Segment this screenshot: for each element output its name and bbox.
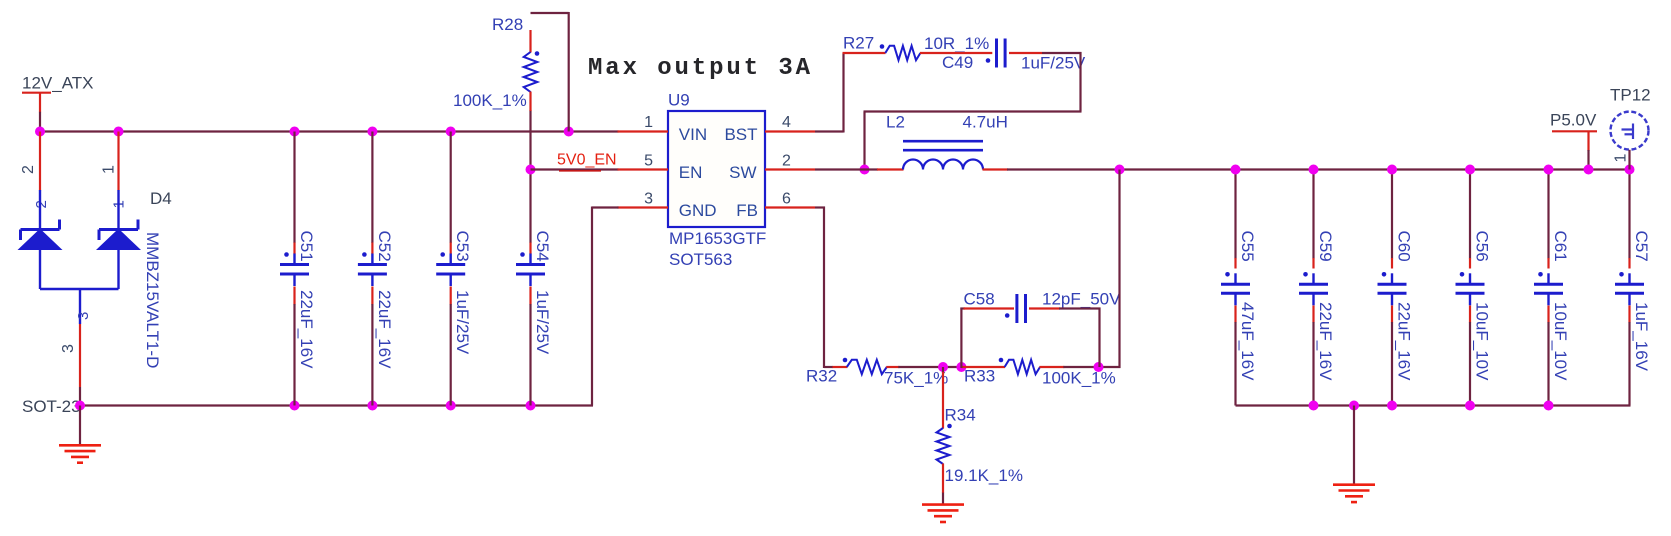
resistor R28	[529, 30, 531, 53]
svg-text:12V_ATX: 12V_ATX	[22, 74, 94, 93]
svg-text:22uF_16V: 22uF_16V	[375, 290, 394, 369]
svg-text:C49: C49	[942, 53, 973, 72]
pin 2 SW	[765, 168, 815, 170]
wire output gnd stem	[1353, 406, 1355, 485]
svg-text:C51: C51	[297, 231, 316, 262]
svg-text:10uF_10V: 10uF_10V	[1551, 302, 1570, 381]
wire C51 top	[293, 132, 295, 244]
svg-text:R27: R27	[843, 34, 874, 53]
wire C56 top	[1469, 170, 1471, 259]
wire C61 top	[1547, 170, 1549, 259]
svg-text:1: 1	[101, 165, 118, 174]
diode D4 zener A (pin 2)	[20, 190, 60, 289]
junction D4 pin1	[114, 127, 124, 137]
wire C55 top	[1234, 170, 1236, 259]
svg-text:10R_1%: 10R_1%	[924, 34, 989, 53]
svg-text:C61: C61	[1551, 231, 1570, 262]
wire R34 top	[942, 367, 944, 373]
junction output gnd stem	[1349, 401, 1359, 411]
capacitor C60	[1378, 273, 1407, 305]
diode D4 pin 2 lead	[39, 132, 41, 191]
svg-text:12pF_50V: 12pF_50V	[1042, 290, 1121, 309]
svg-text:VIN: VIN	[679, 125, 707, 144]
junction C51 bottom	[290, 401, 300, 411]
svg-text:47uF_16V: 47uF_16V	[1238, 302, 1257, 381]
svg-text:C56: C56	[1473, 231, 1492, 262]
junction P5.0V	[1584, 165, 1594, 175]
resistor R33	[961, 366, 1005, 368]
junction C54 bottom	[526, 401, 536, 411]
junction gnd stem	[75, 401, 85, 411]
capacitor C57	[1615, 273, 1644, 305]
svg-text:3: 3	[644, 191, 653, 208]
wire C57 bottom	[1628, 322, 1630, 406]
svg-text:SOT563: SOT563	[669, 250, 732, 269]
junction C53 bottom	[446, 401, 456, 411]
ground R34	[922, 505, 964, 522]
junction C61 top	[1544, 165, 1554, 175]
junction EN node	[526, 165, 536, 175]
wire C59 bottom	[1312, 322, 1314, 406]
svg-text:100K_1%: 100K_1%	[453, 91, 527, 110]
svg-text:5: 5	[644, 153, 653, 170]
svg-text:1uF/25V: 1uF/25V	[533, 290, 552, 355]
svg-text:C57: C57	[1632, 231, 1651, 262]
svg-text:TP12: TP12	[1610, 86, 1651, 105]
diode D4 zener B (pin 1)	[99, 190, 139, 289]
svg-text:1: 1	[1613, 154, 1630, 163]
D4 pin 3 lead	[79, 324, 81, 387]
junction R28 top loop	[564, 127, 574, 137]
testpoint TP12	[1611, 112, 1649, 150]
pin 5 EN	[618, 168, 669, 170]
wire C59 top	[1312, 170, 1314, 259]
ground left (SOT-23)	[59, 445, 101, 462]
wire gnd bus left	[79, 404, 593, 406]
svg-text:22uF_16V: 22uF_16V	[1316, 302, 1335, 381]
junction C56 top	[1465, 165, 1475, 175]
junction C57/TP12 top	[1625, 165, 1635, 175]
wire C52 top	[371, 132, 373, 244]
svg-text:3: 3	[75, 312, 92, 320]
svg-text:19.1K_1%: 19.1K_1%	[945, 466, 1023, 485]
svg-text:MMBZ15VALT1-D: MMBZ15VALT1-D	[143, 232, 162, 368]
wire GND pin route	[592, 206, 619, 208]
svg-text:U9: U9	[668, 91, 690, 110]
pin 3 GND	[618, 206, 669, 208]
svg-text:C55: C55	[1238, 231, 1257, 262]
svg-text:P5.0V: P5.0V	[1550, 111, 1597, 130]
svg-text:2: 2	[20, 165, 37, 174]
svg-text:GND: GND	[679, 201, 717, 220]
junction C59 bottom	[1309, 401, 1319, 411]
wire C51 bottom	[293, 304, 295, 406]
D4 cathode join	[40, 288, 119, 290]
wire FB route	[815, 206, 825, 208]
wire 5V output bus	[1007, 168, 1631, 170]
wire FB mid	[898, 366, 962, 368]
wire 12V_ATX stub	[39, 112, 41, 132]
wire BST route	[815, 130, 844, 132]
svg-text:22uF_16V: 22uF_16V	[1395, 302, 1414, 381]
junction FB sense	[1115, 165, 1125, 175]
junction C59 top	[1309, 165, 1319, 175]
wire SW	[815, 168, 878, 170]
wire C52 bottom	[371, 304, 373, 406]
capacitor C56	[1456, 273, 1485, 305]
resistor R27	[885, 46, 920, 60]
svg-text:C53: C53	[453, 231, 472, 262]
junction C58 left	[956, 362, 966, 372]
capacitor C49	[997, 39, 1006, 68]
junction C53 top	[446, 127, 456, 137]
wire 12V bus	[39, 130, 619, 132]
svg-text:1uF/25V: 1uF/25V	[453, 290, 472, 355]
TP12 pin 1 lead	[1628, 150, 1630, 170]
capacitor C51	[280, 254, 309, 287]
wire C56 bottom	[1469, 322, 1471, 406]
svg-text:R32: R32	[806, 367, 837, 386]
svg-text:SW: SW	[729, 163, 756, 182]
svg-text:1uF/25V: 1uF/25V	[1021, 54, 1086, 73]
svg-text:D4: D4	[150, 189, 172, 208]
svg-text:2: 2	[33, 200, 50, 208]
junction C52 top	[367, 127, 377, 137]
svg-text:3: 3	[60, 344, 77, 353]
junction C55 top	[1231, 165, 1241, 175]
svg-text:1uF_16V: 1uF_16V	[1632, 302, 1651, 372]
svg-text:6: 6	[782, 191, 791, 208]
wire C58 branch right	[1059, 307, 1101, 309]
wire to gnd bus	[79, 387, 81, 406]
junction C51 top	[290, 127, 300, 137]
wire output gnd bus	[1236, 404, 1631, 406]
svg-text:22uF_16V: 22uF_16V	[297, 290, 316, 369]
junction R34 top	[938, 362, 948, 372]
wire FB sense feed	[1118, 170, 1120, 369]
svg-text:1: 1	[644, 114, 653, 131]
pin 4 BST	[765, 130, 815, 132]
svg-text:R33: R33	[964, 367, 995, 386]
wire C60 top	[1391, 170, 1393, 259]
wire EN	[531, 168, 619, 170]
svg-text:R28: R28	[492, 15, 523, 34]
pin 1 VIN	[618, 130, 669, 132]
svg-text:EN: EN	[679, 163, 703, 182]
svg-text:4: 4	[782, 114, 791, 131]
resistor R32	[833, 366, 848, 368]
svg-text:R34: R34	[945, 406, 976, 425]
wire C61 bottom	[1547, 322, 1549, 406]
junction C61 bottom	[1544, 401, 1554, 411]
svg-text:FB: FB	[736, 201, 758, 220]
capacitor C53	[436, 254, 465, 287]
wire R28 top loop	[531, 12, 569, 14]
capacitor C61	[1534, 273, 1563, 305]
node 12V_ATX bus left	[35, 127, 45, 137]
svg-text:2: 2	[782, 153, 791, 170]
wire gnd stem left	[79, 406, 81, 446]
inductor L2	[903, 160, 983, 170]
svg-text:BST: BST	[724, 125, 757, 144]
wire C57 top	[1628, 170, 1630, 259]
svg-text:4.7uH: 4.7uH	[963, 113, 1008, 132]
junction C56 bottom	[1465, 401, 1475, 411]
capacitor C59	[1299, 273, 1328, 305]
junction C58 right	[1094, 362, 1104, 372]
svg-text:C52: C52	[375, 231, 394, 262]
wire C49 to corner	[1042, 52, 1082, 54]
svg-text:10uF_10V: 10uF_10V	[1473, 302, 1492, 381]
wire C54/R28 column	[529, 110, 531, 243]
junction SW node	[860, 165, 870, 175]
wire FB right	[1063, 366, 1120, 368]
svg-text:100K_1%: 100K_1%	[1042, 369, 1116, 388]
wire bootstrap return	[864, 110, 1082, 112]
svg-text:C54: C54	[533, 231, 552, 262]
wire P5.0V stub	[1587, 150, 1589, 170]
junction C52 bottom	[367, 401, 377, 411]
svg-text:C58: C58	[964, 290, 995, 309]
wire R34 gnd stem	[942, 493, 944, 505]
diode D4 pin 1 lead	[117, 132, 119, 191]
wire C58 branch left	[960, 308, 962, 369]
wire C55 bottom	[1234, 322, 1236, 406]
svg-text:5V0_EN: 5V0_EN	[557, 152, 617, 169]
svg-text:Max output 3A: Max output 3A	[588, 55, 813, 82]
svg-text:SOT-23: SOT-23	[22, 397, 81, 416]
wire C60 bottom	[1391, 322, 1393, 406]
op-amp/regulator U9 MP1653GTF body	[668, 111, 765, 227]
svg-text:C60: C60	[1395, 231, 1414, 262]
pin 6 FB	[765, 206, 815, 208]
capacitor C54	[516, 254, 545, 287]
wire C53 bottom	[450, 304, 452, 406]
svg-text:75K_1%: 75K_1%	[884, 369, 948, 388]
ground output	[1333, 485, 1375, 502]
wire C54 bottom	[529, 304, 531, 406]
capacitor C52	[358, 254, 387, 287]
svg-text:MP1653GTF: MP1653GTF	[669, 229, 766, 248]
svg-text:C59: C59	[1316, 231, 1335, 262]
junction C60 bottom	[1387, 401, 1397, 411]
wire C53 top	[450, 132, 452, 244]
capacitor C55	[1221, 273, 1250, 305]
svg-text:L2: L2	[886, 113, 905, 132]
capacitor C58	[1017, 294, 1026, 323]
junction C60 top	[1387, 165, 1397, 175]
